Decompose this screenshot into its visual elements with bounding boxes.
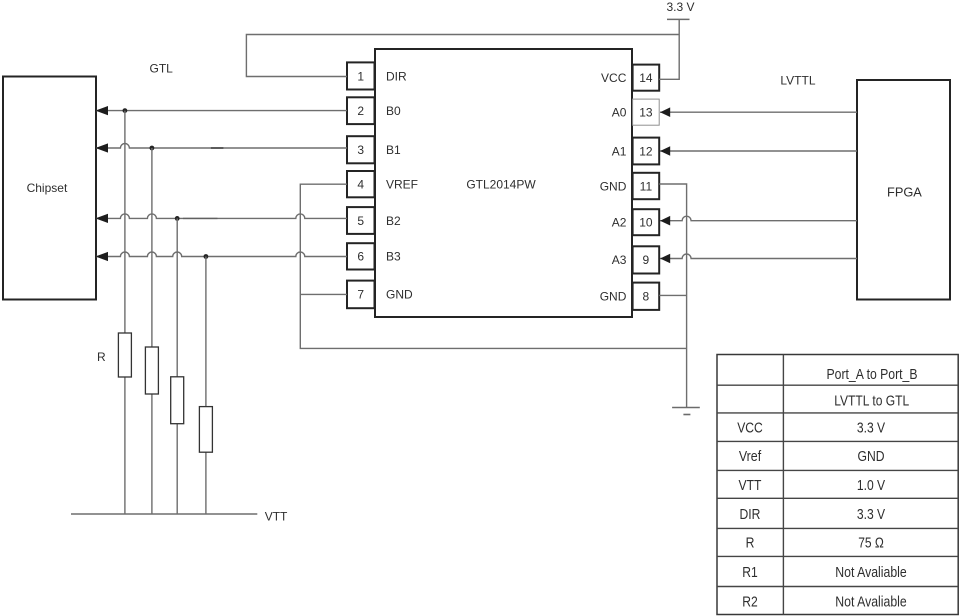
arrow B3	[95, 252, 108, 261]
wire B1 overdraw mark	[211, 147, 224, 149]
pin 13 A0	[612, 99, 659, 125]
wire A3	[660, 254, 857, 258]
wire A2	[660, 216, 857, 221]
svg-text:GTL: GTL	[150, 62, 174, 76]
svg-text:Not Avaliable: Not Avaliable	[835, 565, 907, 581]
svg-text:LVTTL: LVTTL	[780, 74, 815, 88]
svg-text:DIR: DIR	[740, 507, 761, 523]
resistor R2	[145, 148, 158, 514]
svg-text:Port_A to Port_B: Port_A to Port_B	[827, 367, 918, 383]
arrow A0	[660, 107, 670, 117]
pin 5 B2	[347, 207, 401, 234]
svg-text:3.3 V: 3.3 V	[857, 421, 885, 437]
node VTT rail	[71, 510, 288, 524]
wire GND pin8	[659, 294, 686, 296]
resistor R3	[171, 218, 184, 514]
wire DIR pin1 to 3.3V	[246, 35, 679, 77]
svg-text:VREF: VREF	[386, 178, 418, 192]
pin 14 VCC	[601, 65, 659, 91]
svg-text:R1: R1	[742, 565, 758, 581]
wire B0	[96, 110, 347, 112]
svg-text:GND: GND	[858, 449, 885, 465]
svg-text:A3: A3	[612, 253, 627, 267]
svg-text:DIR: DIR	[386, 69, 407, 83]
pin 12 A1	[612, 138, 659, 165]
svg-text:Chipset: Chipset	[27, 181, 68, 195]
pin 7 GND	[347, 281, 413, 309]
svg-text:6: 6	[357, 250, 364, 264]
IC U1 GTL2014PW chip body	[375, 49, 632, 317]
table	[717, 355, 958, 615]
svg-text:3.3 V: 3.3 V	[857, 507, 885, 523]
arrow A1	[660, 146, 670, 156]
svg-text:GND: GND	[386, 288, 413, 302]
svg-text:GND: GND	[600, 290, 627, 304]
wire B2	[96, 214, 347, 219]
svg-text:1: 1	[357, 69, 364, 83]
wire B2 overdraw mark	[183, 217, 218, 219]
junction B0-R1	[123, 108, 128, 113]
svg-text:B1: B1	[386, 143, 401, 157]
junction B1-R2	[150, 146, 155, 151]
svg-text:B3: B3	[386, 250, 401, 264]
svg-text:10: 10	[639, 216, 653, 230]
svg-text:2: 2	[357, 104, 364, 118]
svg-text:GTL2014PW: GTL2014PW	[466, 178, 536, 192]
svg-text:A1: A1	[612, 144, 627, 158]
junction B3-R4	[204, 254, 209, 259]
svg-text:A2: A2	[612, 216, 627, 230]
svg-text:GND: GND	[600, 179, 627, 193]
svg-text:R2: R2	[742, 595, 758, 611]
svg-text:B0: B0	[386, 104, 401, 118]
wire VREF pin4 to bottom gnd rail	[300, 184, 686, 348]
svg-text:3.3 V: 3.3 V	[666, 0, 694, 14]
svg-text:VTT: VTT	[739, 478, 762, 494]
resistor R1	[118, 111, 131, 514]
power 3.3 V	[666, 0, 694, 19]
pin 10 A2	[612, 209, 659, 235]
svg-text:11: 11	[640, 179, 653, 193]
svg-text:1.0 V: 1.0 V	[857, 478, 885, 494]
wire B1	[96, 144, 347, 148]
svg-text:9: 9	[643, 253, 650, 267]
arrow A3	[660, 254, 670, 264]
arrow B1	[95, 143, 108, 152]
FPGA box	[857, 80, 950, 300]
pin 9 A3	[612, 246, 659, 273]
svg-text:VCC: VCC	[737, 421, 763, 437]
wire A0	[660, 111, 857, 113]
svg-text:3: 3	[357, 143, 364, 157]
svg-text:5: 5	[357, 214, 364, 228]
svg-text:14: 14	[639, 71, 653, 85]
svg-text:4: 4	[357, 178, 364, 192]
ground	[672, 408, 700, 415]
svg-text:R: R	[97, 350, 106, 364]
wire A1	[660, 150, 857, 152]
svg-text:75 Ω: 75 Ω	[858, 536, 884, 552]
pin 4 VREF	[347, 171, 418, 197]
svg-text:LVTTL to GTL: LVTTL to GTL	[834, 393, 909, 409]
svg-text:A0: A0	[612, 106, 627, 120]
svg-text:VTT: VTT	[265, 510, 288, 524]
chipset box	[3, 77, 96, 300]
svg-text:Vref: Vref	[739, 449, 762, 465]
wire B3	[96, 252, 347, 257]
pin 6 B3	[347, 243, 401, 269]
junction B2-R3	[175, 216, 180, 221]
svg-text:12: 12	[639, 144, 653, 158]
pin 1 DIR	[347, 62, 407, 89]
svg-text:7: 7	[357, 288, 364, 302]
arrow B0	[95, 106, 108, 115]
svg-text:B2: B2	[386, 214, 401, 228]
svg-text:R: R	[746, 536, 755, 552]
svg-text:FPGA: FPGA	[887, 184, 922, 199]
svg-text:13: 13	[639, 106, 653, 120]
pin 2 B0	[347, 97, 401, 124]
pin 11 GND	[600, 173, 659, 199]
pin 8 GND	[600, 283, 659, 310]
pin 3 B1	[347, 136, 401, 163]
svg-text:8: 8	[643, 290, 650, 304]
wire GND pin7	[300, 293, 347, 295]
arrow A2	[660, 216, 670, 226]
wire GND pin11	[659, 184, 686, 408]
arrow B2	[95, 214, 108, 223]
svg-text:Not Avaliable: Not Avaliable	[835, 595, 907, 611]
wire VCC pin14 to 3.3V	[659, 19, 679, 79]
svg-text:VCC: VCC	[601, 71, 627, 85]
resistor R4	[199, 257, 212, 515]
